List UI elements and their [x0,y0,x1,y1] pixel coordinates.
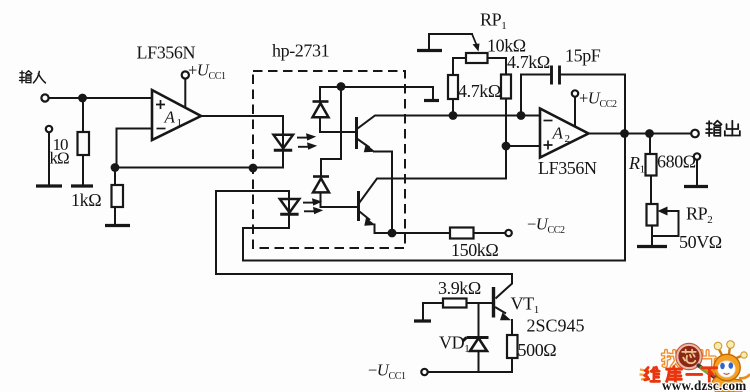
svg-text:A: A [164,108,176,127]
svg-text:50VΩ: 50VΩ [679,232,722,252]
svg-text:2: 2 [565,133,570,145]
svg-text:1kΩ: 1kΩ [71,190,101,210]
svg-text:www.dzsc.com: www.dzsc.com [662,378,746,392]
svg-text:150kΩ: 150kΩ [451,240,498,260]
svg-text:500Ω: 500Ω [518,340,557,360]
svg-text:LF356N: LF356N [538,158,597,178]
svg-text:2SC945: 2SC945 [527,316,585,336]
svg-text:hp-2731: hp-2731 [272,41,329,61]
svg-text:4.7kΩ: 4.7kΩ [507,52,550,72]
svg-text:3.9kΩ: 3.9kΩ [438,278,481,298]
svg-text:4.7kΩ: 4.7kΩ [458,81,501,101]
svg-text:680Ω: 680Ω [657,152,696,172]
svg-text:A: A [552,124,564,143]
svg-text:15pF: 15pF [565,46,601,66]
svg-text:1: 1 [177,117,182,129]
svg-text:LF356N: LF356N [137,43,196,63]
svg-text:kΩ: kΩ [50,149,70,168]
